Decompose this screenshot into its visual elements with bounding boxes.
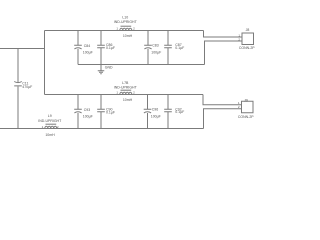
capacitor C84: [74, 45, 82, 49]
wire C92 leads: [167, 95, 169, 129]
capacitor C11: [14, 82, 22, 86]
svg-text:10mH: 10mH: [123, 98, 133, 102]
svg-text:0.1µF: 0.1µF: [175, 46, 184, 50]
svg-text:IND-UPRIGHT: IND-UPRIGHT: [38, 119, 62, 123]
svg-text:IND-UPRIGHT: IND-UPRIGHT: [114, 85, 138, 89]
wire top rail row2: [45, 94, 204, 96]
svg-text:10mH: 10mH: [45, 133, 55, 137]
capacitor C93: [74, 109, 82, 113]
svg-text:0.1µF: 0.1µF: [106, 46, 115, 50]
capacitor C83: [144, 45, 152, 49]
svg-text:470µF: 470µF: [22, 85, 32, 89]
svg-text:L7B: L7B: [122, 81, 129, 85]
capacitor C92: [164, 109, 172, 111]
svg-text:C84: C84: [84, 44, 90, 48]
inductor L7B: [120, 92, 132, 94]
svg-text:10mH: 10mH: [123, 34, 133, 38]
capacitor C90: [97, 109, 105, 111]
svg-text:L10: L10: [122, 16, 128, 20]
svg-text:100µF: 100µF: [151, 50, 161, 54]
svg-text:100µF: 100µF: [83, 50, 93, 54]
wire C87 leads: [167, 31, 169, 65]
wire C90 leads: [100, 95, 102, 129]
svg-text:100µF: 100µF: [151, 114, 161, 118]
svg-text:CONN-2P: CONN-2P: [239, 46, 255, 50]
wire C83 leads: [147, 31, 149, 65]
svg-text:CONN-2P: CONN-2P: [238, 115, 254, 119]
wire C11 leads x18: [17, 49, 19, 129]
svg-text:C93: C93: [84, 108, 90, 112]
svg-text:0.1µF: 0.1µF: [175, 110, 184, 114]
svg-text:J9: J9: [244, 98, 248, 102]
wire bottom rail row2: [0, 128, 204, 130]
wire C93 leads: [77, 95, 79, 129]
inductor L9: [45, 126, 57, 128]
svg-text:GND: GND: [105, 66, 113, 70]
connector J9 box: [242, 101, 254, 113]
connector J8 box: [242, 33, 254, 45]
wire J9 pin1: [203, 95, 242, 105]
capacitor C87: [164, 45, 172, 47]
wire J9 pin2: [204, 109, 242, 129]
wire J8 pin1: [204, 31, 243, 38]
svg-text:J8: J8: [246, 28, 250, 32]
ground: [98, 65, 105, 74]
svg-text:L9: L9: [48, 114, 52, 118]
svg-text:C83: C83: [152, 43, 158, 47]
wire C84 leads: [77, 31, 79, 65]
wire top rail row1: [45, 30, 204, 32]
svg-text:0.1µF: 0.1µF: [106, 110, 115, 114]
svg-text:C96: C96: [152, 107, 158, 111]
svg-text:100µF: 100µF: [83, 114, 93, 118]
inductor L10: [120, 28, 132, 30]
wire input top-left: [0, 48, 45, 50]
wire vertical feed x44: [44, 31, 46, 95]
wire bottom rail row1: [78, 64, 205, 66]
wire C96 leads: [147, 95, 149, 129]
wire C86 leads: [100, 31, 102, 65]
capacitor C96: [144, 109, 152, 113]
wire J8 pin2: [205, 41, 243, 65]
capacitor C86: [97, 45, 105, 47]
svg-text:IND-UPRIGHT: IND-UPRIGHT: [114, 20, 138, 24]
